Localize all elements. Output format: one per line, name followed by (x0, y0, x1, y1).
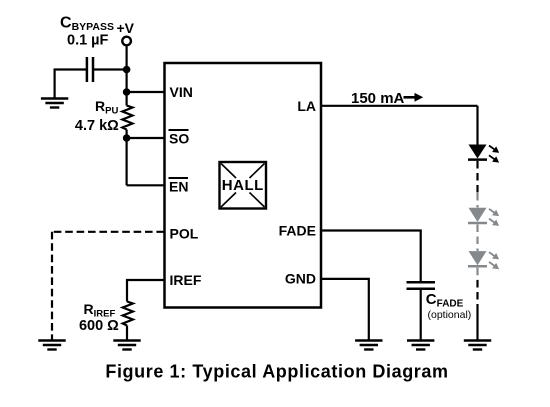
wire dashed gray to D2 (476, 193, 478, 208)
wire GND pin (321, 279, 369, 340)
LED D3 (gray) (469, 251, 487, 265)
wire CFADE to ground (420, 290, 422, 340)
resistor R2 RIREF zigzag (123, 302, 133, 326)
svg-text:Figure 1: Typical Application: Figure 1: Typical Application Diagram (105, 362, 448, 382)
hall element box (220, 162, 267, 209)
wire dashed black below D1 (476, 161, 478, 193)
svg-text:EN: EN (169, 179, 188, 195)
svg-text:POL: POL (170, 226, 199, 242)
svg-text:150 mA: 150 mA (351, 90, 405, 107)
svg-text:CFADE: CFADE (426, 291, 464, 310)
svg-text:LA: LA (297, 98, 316, 114)
wire capacitor branch left (55, 70, 87, 98)
IC U1 body (165, 63, 322, 308)
LED D1 (black) (469, 145, 487, 159)
wire RIREF to ground (126, 326, 128, 340)
wire LA vertical to LED (476, 106, 478, 145)
hall box diagonal bottom-right (250, 193, 265, 208)
svg-text:4.7 kΩ: 4.7 kΩ (75, 118, 119, 134)
junction dot SO node (123, 134, 131, 142)
wire EN pin (127, 184, 164, 186)
svg-text:RIREF: RIREF (84, 301, 116, 320)
wire dashed gray below D3 (476, 268, 478, 280)
svg-text:SO: SO (169, 131, 189, 147)
ground G2 (POL) (38, 341, 65, 350)
ground G1 (capacitor) (41, 99, 68, 108)
wire SO pin (127, 137, 164, 139)
svg-text:IREF: IREF (170, 272, 202, 288)
wire dashed black lower (476, 280, 478, 306)
ground G3 (RIREF) (113, 341, 140, 350)
wire dashed gray between D2 and D3 (476, 225, 478, 252)
capacitor C1 CBYPASS plates (86, 57, 89, 82)
svg-text:0.1 µF: 0.1 µF (67, 33, 109, 49)
svg-text:600 Ω: 600 Ω (79, 318, 119, 334)
svg-text:HALL: HALL (222, 177, 264, 194)
junction dot capacitor node (123, 66, 131, 74)
LED D1 light arrows (489, 146, 498, 163)
wire IREF pin (127, 280, 164, 302)
hall box diagonal bottom-left (221, 193, 236, 208)
wire supply rail lower (resistor bottom to EN corner) (125, 130, 127, 186)
svg-text:GND: GND (285, 271, 316, 287)
wire POL dashed horizontal (52, 231, 164, 233)
svg-text:FADE: FADE (279, 223, 316, 239)
wire VIN pin (127, 91, 164, 93)
current arrow (404, 96, 416, 99)
svg-text:RPU: RPU (95, 98, 118, 117)
capacitor C2 CFADE plates (407, 281, 436, 284)
LED D2 light arrows (489, 209, 498, 226)
svg-text:VIN: VIN (170, 84, 193, 100)
svg-text:CBYPASS: CBYPASS (60, 15, 114, 34)
wire capacitor branch right (93, 68, 127, 70)
resistor R1 RPU zigzag (122, 106, 132, 130)
supply terminal +V circle (122, 37, 131, 46)
wire LA pin horizontal (321, 105, 478, 107)
wire POL dashed vertical (51, 232, 53, 340)
wire supply rail upper (circle to resistor top) (125, 47, 127, 106)
hall box diagonal top-left (221, 164, 236, 179)
LED D3 light arrows (489, 252, 498, 269)
wire FADE pin (321, 231, 421, 282)
LED D2 (gray) (469, 208, 487, 222)
ground G6 (GND pin) (355, 341, 382, 350)
svg-text:+V: +V (117, 20, 135, 36)
junction dot VIN node (123, 88, 131, 96)
wire solid to LED ground (476, 306, 478, 340)
svg-text:(optional): (optional) (428, 309, 472, 321)
ground G4 (LED chain) (464, 341, 491, 350)
ground G5 (CFADE) (407, 341, 434, 350)
hall box diagonal top-right (250, 164, 265, 179)
